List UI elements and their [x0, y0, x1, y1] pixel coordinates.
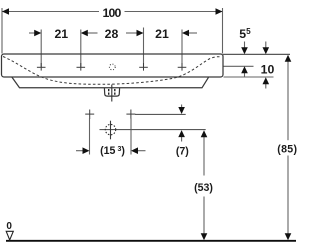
reference line upper (holes level)	[135, 113, 186, 115]
dimension (53)	[203, 137, 205, 176]
svg-text:100: 100	[102, 6, 121, 20]
svg-text:(85): (85)	[277, 144, 297, 156]
extension lines from mounting holes	[90, 118, 132, 155]
dimension 28	[87, 28, 144, 68]
svg-text:21: 21	[54, 27, 68, 41]
basin apron	[12, 77, 209, 88]
bowl hidden contour	[3, 57, 220, 85]
dimension 21 left	[29, 30, 81, 68]
svg-text:21: 21	[155, 27, 169, 41]
reference line lower (trap level)	[100, 129, 206, 131]
dimension 100	[2, 8, 223, 54]
tap hole cross 3	[139, 63, 148, 71]
dimension (15 3)	[76, 150, 146, 152]
trap hole dashed circle	[105, 124, 115, 134]
tap hole cross 2	[77, 63, 86, 71]
mounting hole cross right	[126, 110, 135, 120]
svg-text:0: 0	[6, 221, 12, 232]
optional tap hole dotted circle	[109, 64, 115, 70]
svg-text:(15 3): (15 3)	[100, 145, 125, 157]
dimension (85)	[287, 62, 289, 141]
dimension 21 right	[182, 30, 197, 68]
rim top extension line	[223, 53, 290, 55]
tap hole cross 4	[178, 63, 187, 71]
svg-text:(53): (53)	[194, 182, 213, 194]
floor line	[6, 240, 296, 242]
mounting hole cross left	[85, 110, 94, 120]
svg-text:28: 28	[105, 27, 119, 41]
basin outline	[2, 54, 224, 77]
svg-text:(7): (7)	[176, 146, 189, 158]
drain fitting	[104, 88, 119, 96]
trap vertical centerline	[110, 121, 112, 140]
svg-text:10: 10	[261, 62, 275, 76]
dimension (7)	[181, 105, 183, 109]
drain centerline	[111, 85, 113, 102]
datum triangle	[6, 231, 13, 240]
tap hole cross 1	[37, 63, 46, 71]
